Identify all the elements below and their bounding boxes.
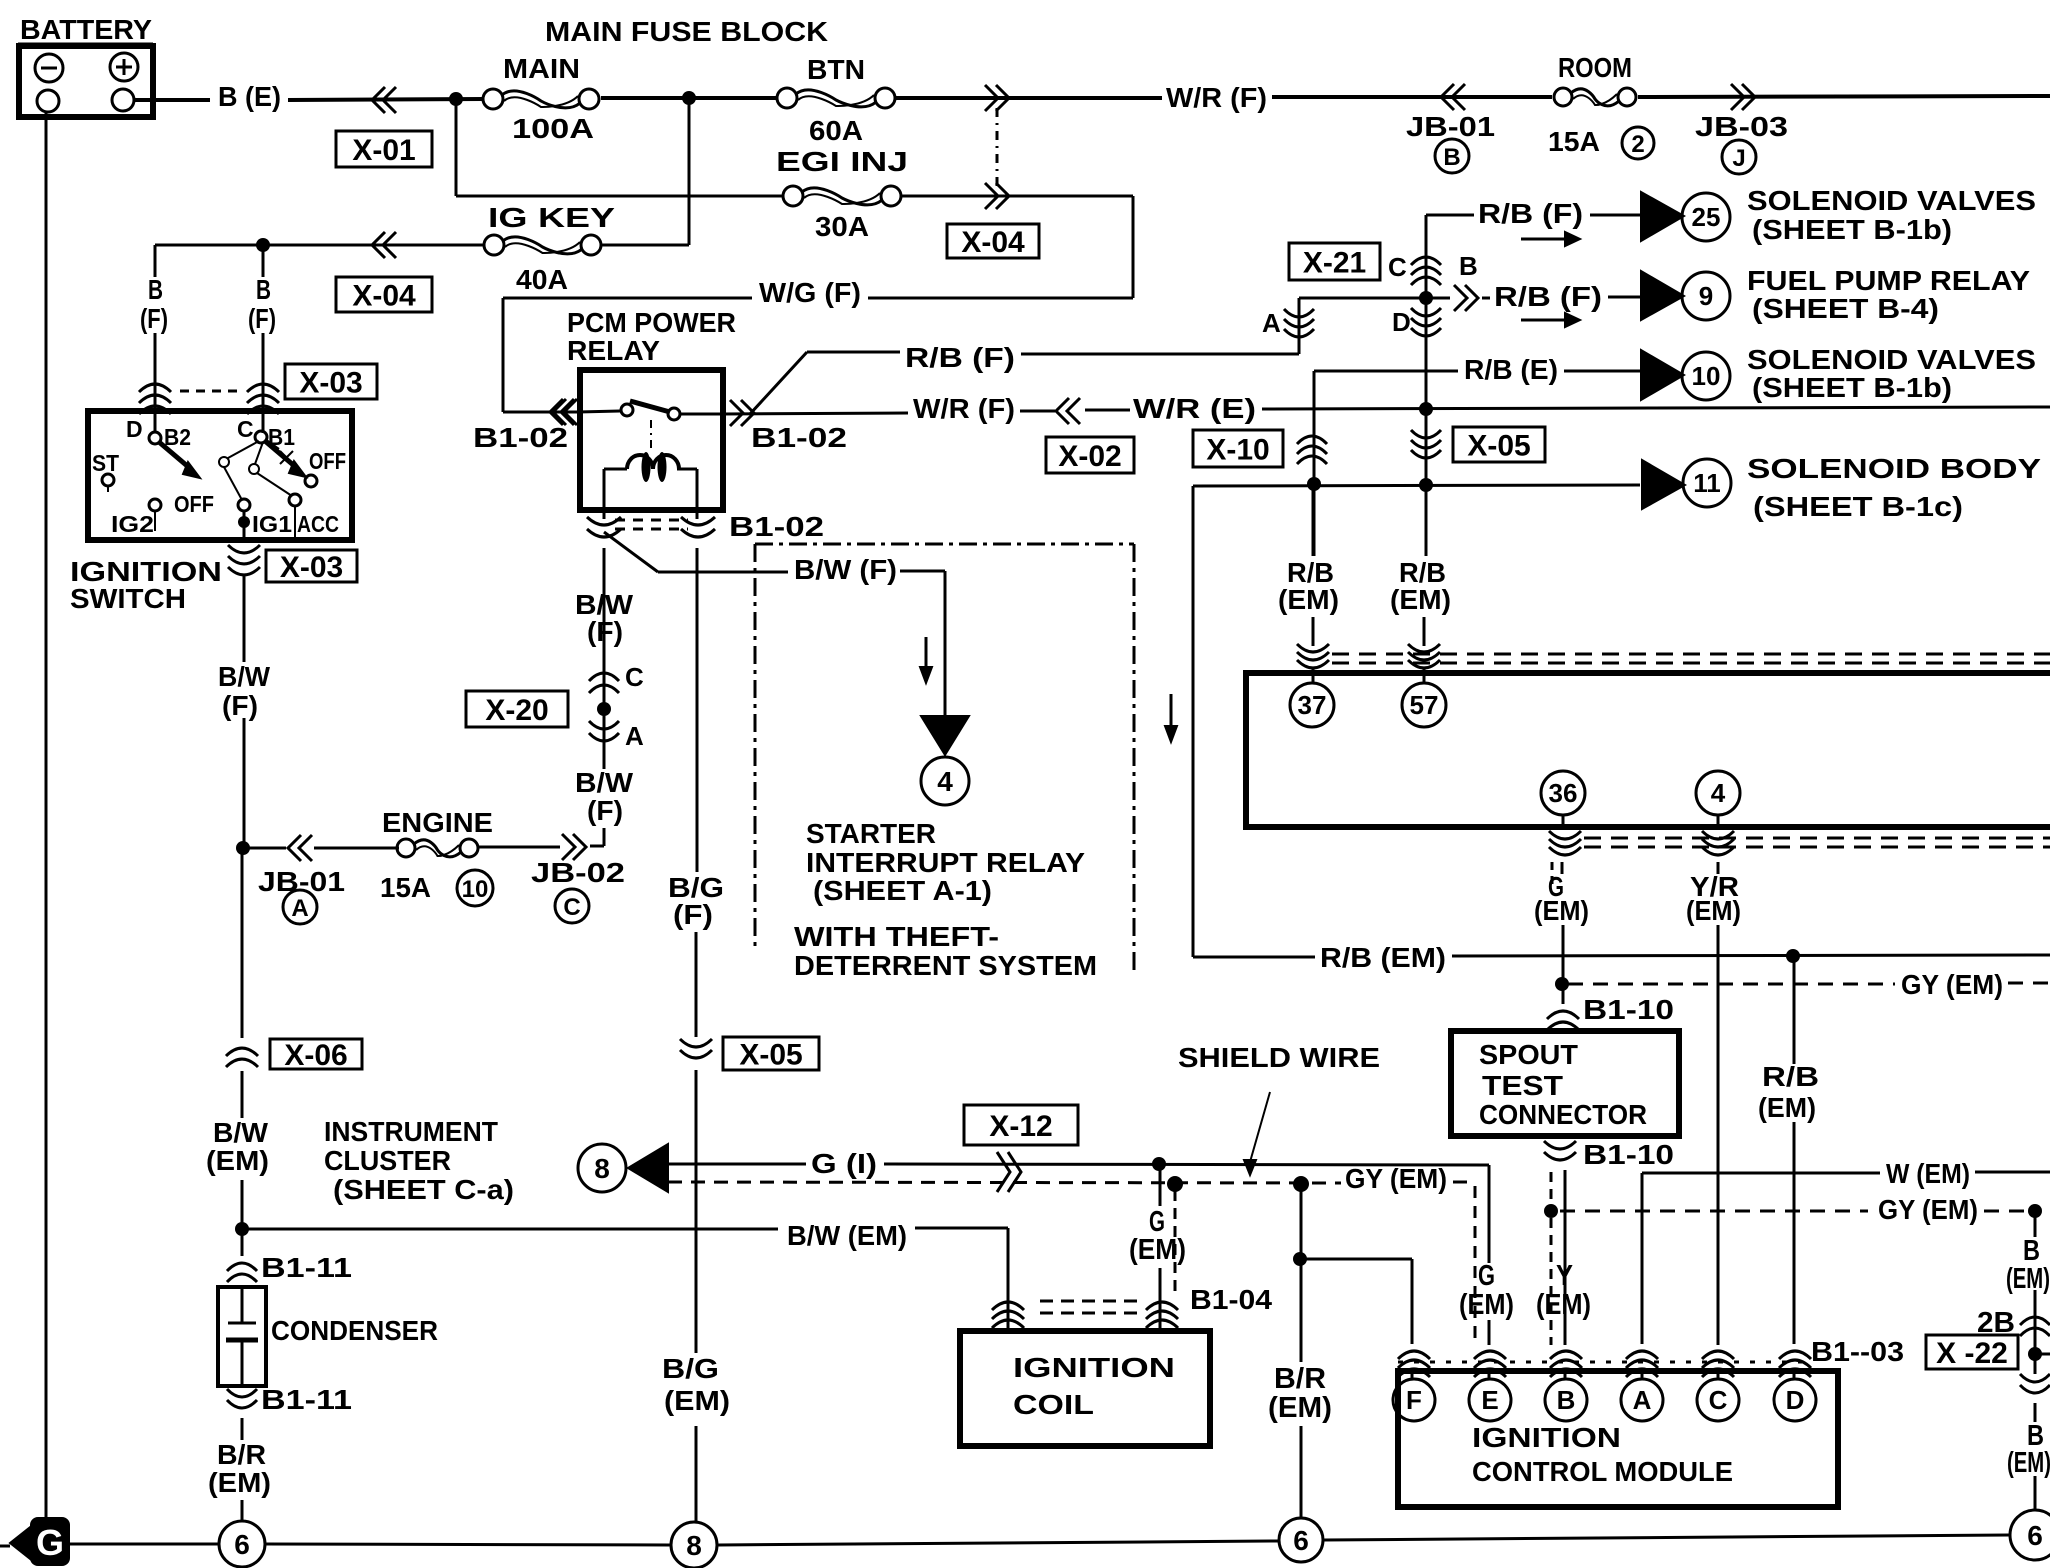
- svg-text:B (E): B (E): [218, 81, 281, 112]
- svg-text:W (EM): W (EM): [1886, 1158, 1970, 1189]
- svg-text:JB-01: JB-01: [1406, 111, 1495, 142]
- svg-text:X-04: X-04: [352, 280, 416, 313]
- svg-text:B: B: [1459, 251, 1478, 281]
- svg-text:X -22: X -22: [1936, 1337, 2008, 1370]
- svg-text:(EM): (EM): [1278, 584, 1339, 615]
- svg-text:(SHEET B-1b): (SHEET B-1b): [1752, 214, 1952, 245]
- svg-text:E: E: [1481, 1385, 1498, 1415]
- svg-text:X-05: X-05: [739, 1039, 802, 1072]
- svg-text:X-02: X-02: [1058, 440, 1121, 473]
- svg-text:ROOM: ROOM: [1558, 52, 1632, 83]
- svg-text:CONNECTOR: CONNECTOR: [1479, 1099, 1647, 1130]
- svg-text:W/R (F): W/R (F): [913, 393, 1015, 424]
- svg-text:25: 25: [1692, 202, 1721, 232]
- svg-text:(EM): (EM): [206, 1145, 269, 1176]
- svg-text:MAIN: MAIN: [503, 53, 580, 84]
- svg-text:(EM): (EM): [1758, 1092, 1816, 1123]
- svg-text:Y: Y: [1556, 1260, 1573, 1292]
- svg-text:(EM): (EM): [1268, 1392, 1332, 1424]
- svg-text:A: A: [1262, 308, 1281, 338]
- svg-text:(EM): (EM): [1459, 1289, 1514, 1321]
- svg-text:D: D: [1392, 307, 1411, 337]
- svg-text:15A: 15A: [380, 872, 431, 903]
- svg-text:57: 57: [1410, 690, 1439, 720]
- svg-text:BTN: BTN: [807, 54, 865, 85]
- svg-text:BATTERY: BATTERY: [20, 14, 152, 45]
- svg-text:B/W: B/W: [218, 661, 271, 692]
- svg-text:(SHEET B-1c): (SHEET B-1c): [1753, 491, 1963, 522]
- svg-text:B: B: [148, 274, 163, 305]
- svg-text:B1-11: B1-11: [261, 1384, 352, 1415]
- svg-text:B/R: B/R: [217, 1439, 266, 1470]
- svg-text:A: A: [1633, 1385, 1652, 1415]
- svg-text:A: A: [625, 721, 644, 751]
- svg-text:R/B (F): R/B (F): [905, 342, 1015, 373]
- svg-text:(EM): (EM): [2007, 1447, 2050, 1479]
- svg-text:R/B (F): R/B (F): [1494, 281, 1602, 312]
- svg-text:R/B (E): R/B (E): [1464, 354, 1558, 385]
- svg-text:2: 2: [1631, 131, 1644, 158]
- svg-text:C: C: [1709, 1385, 1728, 1415]
- svg-text:B1-02: B1-02: [751, 422, 847, 453]
- svg-text:40A: 40A: [516, 264, 568, 295]
- svg-text:JB-02: JB-02: [531, 857, 625, 888]
- svg-text:GY (EM): GY (EM): [1345, 1163, 1447, 1194]
- svg-text:(EM): (EM): [664, 1385, 730, 1416]
- svg-text:GY (EM): GY (EM): [1901, 969, 2003, 1000]
- svg-text:B/G: B/G: [662, 1353, 719, 1384]
- svg-text:ST: ST: [92, 450, 119, 476]
- svg-text:(EM): (EM): [208, 1467, 271, 1498]
- svg-text:IGNITION: IGNITION: [1472, 1422, 1621, 1453]
- svg-text:9: 9: [1699, 281, 1713, 311]
- svg-text:INTERRUPT RELAY: INTERRUPT RELAY: [806, 847, 1085, 878]
- svg-text:37: 37: [1298, 690, 1327, 720]
- svg-text:B1-02: B1-02: [729, 511, 824, 542]
- svg-text:B1-10: B1-10: [1583, 1139, 1674, 1170]
- svg-text:B: B: [1443, 144, 1460, 171]
- svg-text:15A: 15A: [1548, 126, 1600, 157]
- svg-text:COIL: COIL: [1013, 1389, 1094, 1420]
- svg-text:R/B: R/B: [1762, 1061, 1819, 1092]
- svg-text:(F): (F): [140, 303, 168, 334]
- svg-text:IG KEY: IG KEY: [488, 202, 615, 233]
- svg-text:X-04: X-04: [961, 226, 1025, 259]
- svg-text:SHIELD WIRE: SHIELD WIRE: [1178, 1042, 1380, 1073]
- svg-text:TEST: TEST: [1482, 1070, 1563, 1101]
- svg-text:SOLENOID BODY: SOLENOID BODY: [1747, 453, 2041, 484]
- svg-text:B/W: B/W: [213, 1117, 269, 1148]
- svg-text:36: 36: [1549, 778, 1578, 808]
- svg-text:RELAY: RELAY: [567, 335, 660, 366]
- svg-text:B1-11: B1-11: [261, 1252, 352, 1283]
- svg-text:CONTROL MODULE: CONTROL MODULE: [1472, 1456, 1733, 1487]
- svg-text:ACC: ACC: [297, 511, 339, 537]
- svg-text:SPOUT: SPOUT: [1479, 1039, 1578, 1070]
- svg-text:DETERRENT SYSTEM: DETERRENT SYSTEM: [794, 950, 1097, 981]
- svg-text:X-21: X-21: [1303, 247, 1366, 280]
- svg-text:CLUSTER: CLUSTER: [324, 1145, 451, 1176]
- svg-text:SOLENOID VALVES: SOLENOID VALVES: [1747, 185, 2036, 216]
- svg-text:X-20: X-20: [485, 694, 548, 727]
- svg-text:STARTER: STARTER: [806, 818, 936, 849]
- svg-text:B/R: B/R: [1274, 1363, 1326, 1395]
- svg-text:X-10: X-10: [1206, 434, 1269, 467]
- svg-text:EGI INJ: EGI INJ: [776, 146, 908, 177]
- svg-text:FUEL PUMP RELAY: FUEL PUMP RELAY: [1747, 265, 2030, 296]
- svg-text:B1-04: B1-04: [1190, 1284, 1272, 1315]
- svg-text:B1-10: B1-10: [1583, 994, 1674, 1025]
- svg-text:(SHEET C-a): (SHEET C-a): [333, 1174, 514, 1205]
- svg-text:A: A: [291, 895, 308, 922]
- svg-text:JB-03: JB-03: [1695, 111, 1788, 142]
- svg-text:B/W (EM): B/W (EM): [787, 1220, 907, 1251]
- svg-text:4: 4: [1711, 778, 1726, 808]
- svg-text:(SHEET B-1b): (SHEET B-1b): [1752, 372, 1952, 403]
- svg-text:(EM): (EM): [2006, 1263, 2050, 1295]
- svg-text:X-03: X-03: [299, 367, 362, 400]
- svg-text:8: 8: [686, 1530, 702, 1561]
- svg-text:B: B: [1557, 1385, 1576, 1415]
- svg-text:C: C: [563, 894, 580, 921]
- svg-text:OFF: OFF: [174, 491, 214, 517]
- svg-text:6: 6: [2027, 1520, 2043, 1551]
- svg-text:C: C: [1388, 252, 1407, 282]
- svg-text:8: 8: [594, 1153, 610, 1184]
- svg-text:(F): (F): [248, 303, 276, 334]
- svg-text:G (I): G (I): [811, 1148, 877, 1179]
- svg-text:WITH THEFT-: WITH THEFT-: [794, 921, 999, 952]
- svg-text:IGNITION: IGNITION: [1013, 1352, 1175, 1383]
- svg-text:(SHEET B-4): (SHEET B-4): [1752, 293, 1939, 324]
- svg-text:W/G (F): W/G (F): [759, 277, 861, 308]
- svg-text:SWITCH: SWITCH: [70, 583, 186, 614]
- svg-text:(EM): (EM): [1390, 584, 1451, 615]
- svg-text:CONDENSER: CONDENSER: [271, 1315, 438, 1346]
- svg-text:11: 11: [1693, 468, 1721, 498]
- svg-text:C: C: [237, 416, 254, 442]
- svg-text:W/R (E): W/R (E): [1133, 393, 1256, 424]
- svg-text:X-12: X-12: [989, 1110, 1052, 1143]
- svg-text:IG2: IG2: [111, 511, 154, 537]
- svg-text:(F): (F): [587, 795, 623, 826]
- svg-text:D: D: [1786, 1385, 1805, 1415]
- svg-text:B/W: B/W: [575, 767, 634, 798]
- svg-text:W/R (F): W/R (F): [1166, 82, 1267, 113]
- svg-text:30A: 30A: [815, 211, 869, 242]
- svg-text:J: J: [1732, 145, 1745, 172]
- svg-text:R/B (F): R/B (F): [1478, 198, 1583, 229]
- svg-text:(EM): (EM): [1129, 1234, 1186, 1266]
- svg-text:(F): (F): [673, 899, 713, 930]
- svg-text:B1-02: B1-02: [473, 422, 568, 453]
- svg-text:F: F: [1406, 1385, 1422, 1415]
- svg-text:GY (EM): GY (EM): [1878, 1194, 1978, 1225]
- svg-text:6: 6: [1293, 1525, 1309, 1556]
- svg-text:B/W (F): B/W (F): [794, 554, 897, 585]
- svg-text:IG1: IG1: [252, 511, 292, 537]
- svg-text:B1--03: B1--03: [1811, 1336, 1904, 1367]
- svg-text:X-03: X-03: [280, 551, 343, 584]
- svg-text:MAIN FUSE BLOCK: MAIN FUSE BLOCK: [545, 16, 828, 47]
- svg-text:(EM): (EM): [1686, 895, 1741, 926]
- svg-text:INSTRUMENT: INSTRUMENT: [324, 1116, 498, 1147]
- svg-text:(F): (F): [222, 690, 258, 721]
- svg-text:G: G: [36, 1522, 64, 1563]
- svg-text:R/B (EM): R/B (EM): [1320, 942, 1446, 973]
- svg-text:C: C: [625, 662, 644, 692]
- svg-text:100A: 100A: [512, 113, 594, 144]
- svg-text:PCM POWER: PCM POWER: [567, 307, 736, 338]
- svg-text:OFF: OFF: [309, 448, 346, 474]
- svg-text:(EM): (EM): [1534, 895, 1589, 926]
- svg-text:(SHEET A-1): (SHEET A-1): [813, 875, 992, 906]
- svg-text:10: 10: [462, 876, 489, 903]
- svg-text:ENGINE: ENGINE: [382, 807, 493, 838]
- svg-text:X-06: X-06: [284, 1039, 347, 1072]
- svg-text:X-05: X-05: [1467, 430, 1530, 463]
- svg-text:JB-01: JB-01: [258, 866, 345, 897]
- svg-text:X-01: X-01: [352, 134, 415, 167]
- svg-text:10: 10: [1692, 361, 1721, 391]
- svg-text:4: 4: [937, 766, 953, 797]
- svg-text:60A: 60A: [809, 115, 863, 146]
- svg-text:SOLENOID VALVES: SOLENOID VALVES: [1747, 344, 2036, 375]
- svg-text:D: D: [126, 416, 143, 442]
- svg-text:6: 6: [234, 1529, 250, 1560]
- svg-text:(EM): (EM): [1536, 1289, 1591, 1321]
- svg-text:G: G: [1478, 1260, 1495, 1292]
- svg-text:B: B: [256, 274, 271, 305]
- svg-text:B2: B2: [164, 424, 191, 450]
